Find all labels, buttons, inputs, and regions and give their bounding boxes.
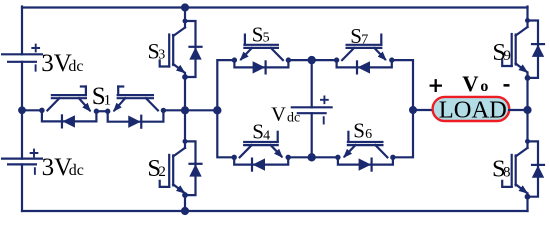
svg-text:3: 3 xyxy=(158,47,165,62)
svg-text:dc: dc xyxy=(69,162,84,179)
node S1 left IGBT right terminal xyxy=(94,109,98,113)
label 3Vdc lower xyxy=(42,154,84,181)
svg-text:1: 1 xyxy=(104,92,112,108)
label S2 xyxy=(147,155,166,182)
transistor S9 xyxy=(502,21,527,76)
transistor S1 right IGBT xyxy=(114,87,157,111)
wire S8 emitter to bottom rail xyxy=(526,196,528,211)
wire S8 diode branch xyxy=(528,141,539,196)
label S6 xyxy=(353,119,372,143)
node bridge right output junction xyxy=(410,107,417,114)
svg-text:3V: 3V xyxy=(41,50,72,77)
node S9 top bend xyxy=(526,19,530,23)
label S7 xyxy=(350,24,368,48)
battery V2 3Vdc xyxy=(2,150,42,174)
diode D6 xyxy=(338,157,393,171)
wire right rail top xyxy=(526,7,528,21)
wire bridge right column xyxy=(392,60,413,157)
node S2 emitter junction xyxy=(183,193,188,198)
wire S3 diode branch xyxy=(185,21,196,77)
node S1 left IGBT left terminal xyxy=(40,108,44,112)
label S1 xyxy=(92,83,111,110)
node load return junction xyxy=(524,106,531,113)
wire S3-S2 link xyxy=(184,76,186,141)
wire S3 collector from top rail xyxy=(184,8,186,22)
capacitor C1 Vdc xyxy=(292,96,332,123)
svg-text:9: 9 xyxy=(503,48,511,64)
diode D1b xyxy=(108,110,164,128)
wire capacitor bottom lead xyxy=(311,113,313,157)
node S9 emitter junction xyxy=(525,76,530,81)
label S8 xyxy=(492,155,511,182)
svg-text:V: V xyxy=(271,104,286,126)
diode D7 xyxy=(337,60,392,74)
transistor S6 xyxy=(345,132,388,158)
svg-text:6: 6 xyxy=(365,127,372,142)
wire capacitor top lead xyxy=(311,60,313,107)
label S3 xyxy=(148,39,166,64)
diode D9 xyxy=(532,44,544,57)
transistor S2 xyxy=(160,141,185,196)
svg-text:dc: dc xyxy=(68,58,83,75)
transistor S8 xyxy=(502,141,527,196)
node S1 output junction xyxy=(181,107,188,114)
diode D2 xyxy=(189,164,201,177)
wire S1 left feed xyxy=(22,109,42,111)
label Vo xyxy=(462,71,488,96)
battery V1 3Vdc xyxy=(2,45,42,71)
transistor S1 left IGBT xyxy=(47,87,89,111)
node S1 right IGBT right terminal xyxy=(161,108,165,112)
wire bridge left column xyxy=(217,60,234,157)
wire top rail xyxy=(22,6,528,8)
wire load right lead xyxy=(509,109,527,111)
wire top row middle xyxy=(288,59,337,61)
node S7 left terminal xyxy=(334,58,338,62)
node S1 right IGBT left terminal xyxy=(106,109,110,113)
load LOAD xyxy=(433,97,510,121)
diode D3 xyxy=(189,47,201,60)
transistor S7 xyxy=(342,35,385,61)
svg-text:V: V xyxy=(462,71,478,96)
svg-text:2: 2 xyxy=(158,164,166,180)
svg-text:S: S xyxy=(353,119,365,143)
diode D4 xyxy=(234,157,288,171)
wire load left lead xyxy=(413,109,433,111)
wire S1 emitter link xyxy=(96,110,107,112)
node S3 top bend xyxy=(183,19,187,23)
node S2 top bend xyxy=(183,139,187,143)
wire bridge input xyxy=(185,109,217,111)
wire bottom row middle xyxy=(288,156,338,158)
node S7 right terminal xyxy=(390,58,394,62)
node S8 emitter junction xyxy=(525,194,530,199)
node S5 right terminal xyxy=(286,58,290,62)
svg-text:dc: dc xyxy=(287,110,300,125)
node left rail S1 tap xyxy=(19,107,26,114)
label S9 xyxy=(492,39,511,66)
label S4 xyxy=(252,120,270,144)
wire S2 emitter to bottom rail xyxy=(184,196,186,211)
label S5 xyxy=(252,23,270,47)
label Vdc xyxy=(271,104,300,126)
diode D8 xyxy=(532,165,544,178)
node bridge bottom center xyxy=(308,154,315,161)
wire left rail upper xyxy=(21,7,23,55)
node top rail leg junction xyxy=(181,4,188,11)
svg-text:3V: 3V xyxy=(42,154,73,181)
svg-text:5: 5 xyxy=(263,30,270,45)
svg-text:4: 4 xyxy=(263,128,270,143)
node bottom rail leg junction xyxy=(181,207,188,214)
svg-text:8: 8 xyxy=(503,164,511,180)
transistor S4 xyxy=(240,132,282,158)
svg-text:LOAD: LOAD xyxy=(439,97,507,124)
node S1 collector tap left xyxy=(40,108,44,112)
wire S2 diode branch xyxy=(185,141,196,195)
node S3 emitter junction xyxy=(183,75,188,80)
node bridge top center xyxy=(308,56,315,63)
node bridge left junction xyxy=(214,107,221,114)
label LOAD xyxy=(439,97,507,124)
node S5 left terminal xyxy=(232,58,236,62)
label minus Vo xyxy=(504,84,510,87)
wire bottom rail xyxy=(22,210,528,212)
wire S9-S8 link xyxy=(526,76,528,142)
diode D1a xyxy=(42,110,97,127)
label 3Vdc upper xyxy=(41,50,83,77)
transistor S5 xyxy=(241,35,283,61)
svg-text:7: 7 xyxy=(361,33,368,48)
wire S1 right feed xyxy=(163,109,185,111)
transistor S3 xyxy=(160,21,185,76)
diode D5 xyxy=(234,60,288,74)
node S6 right terminal xyxy=(391,155,395,159)
node S8 top bend xyxy=(526,139,530,143)
wire S9 diode branch xyxy=(528,21,539,78)
svg-text:o: o xyxy=(480,78,488,95)
label plus Vo xyxy=(431,80,441,91)
wire left rail lower xyxy=(21,164,23,211)
node S4 right terminal xyxy=(286,155,290,159)
node S6 left terminal xyxy=(336,155,340,159)
wire left rail middle xyxy=(21,62,23,159)
node S4 left terminal xyxy=(232,155,236,159)
